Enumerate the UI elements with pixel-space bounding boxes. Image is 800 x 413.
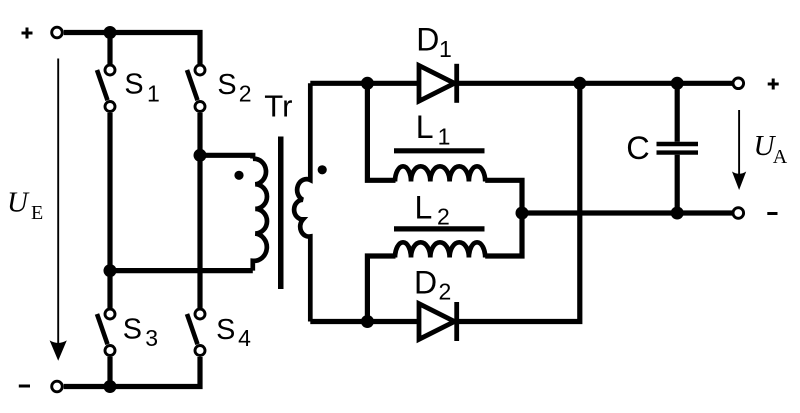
node D2 anode / L2 tap xyxy=(361,315,374,328)
diode D1 xyxy=(419,64,457,103)
svg-text:1: 1 xyxy=(147,81,160,107)
wire top-left rail xyxy=(64,33,200,65)
svg-text:L: L xyxy=(416,109,434,145)
switch S3 xyxy=(97,309,115,356)
switch S1 xyxy=(97,65,115,112)
wire primary top xyxy=(200,155,253,158)
transformer core xyxy=(278,137,284,290)
output minus label xyxy=(767,212,777,215)
label L1 xyxy=(416,109,451,149)
wire S1 drop xyxy=(107,33,112,65)
transformer primary winding xyxy=(253,159,267,271)
UA arrowhead xyxy=(732,172,746,191)
output plus terminal xyxy=(733,78,744,89)
capacitor C stem top xyxy=(675,83,680,142)
switch S2 xyxy=(187,65,205,112)
svg-text:S: S xyxy=(216,314,235,346)
inductor L2 bar xyxy=(394,226,485,231)
node capacitor bottom xyxy=(671,207,684,220)
inductor L2 winding xyxy=(395,242,485,257)
wire D2 cathode riser to top rail xyxy=(457,83,580,321)
wire secondary bottom rail to D2 xyxy=(310,319,419,324)
wire left branch S1 to mid junction xyxy=(107,113,112,271)
diode D2 xyxy=(419,302,457,341)
wire L2 right riser xyxy=(485,213,522,256)
label S4 xyxy=(216,314,251,351)
UE measure line xyxy=(57,59,59,347)
secondary polarity dot xyxy=(318,165,327,174)
wire S3 to bottom rail xyxy=(107,357,112,387)
node L1 L2 junction on minus rail xyxy=(516,207,529,220)
node D1 anode / L1 tap xyxy=(361,77,374,90)
svg-text:D: D xyxy=(414,265,437,301)
capacitor C stem bottom xyxy=(675,155,680,213)
label S3 xyxy=(123,314,158,351)
capacitor C plates xyxy=(657,144,699,153)
wire L1 tap drop xyxy=(367,83,395,180)
input plus label xyxy=(22,28,33,39)
wire primary bottom to left branch xyxy=(110,268,253,273)
inductor L1 bar xyxy=(394,148,485,153)
label UA xyxy=(754,130,788,168)
svg-text:2: 2 xyxy=(239,81,252,107)
input minus label xyxy=(19,385,30,388)
svg-text:S: S xyxy=(124,69,143,101)
node capacitor top xyxy=(671,77,684,90)
switch S4 xyxy=(187,309,205,356)
label L2 xyxy=(415,190,450,230)
wire mid junction to S3 xyxy=(107,271,112,308)
wire L2 tap drop xyxy=(367,256,395,322)
wire right branch S2 to S4 xyxy=(197,113,202,308)
input plus terminal xyxy=(52,27,63,38)
primary polarity dot xyxy=(234,171,243,180)
UE arrowhead xyxy=(50,340,67,360)
wire secondary top rail to D1 xyxy=(310,81,419,86)
node bottom junction xyxy=(104,380,117,393)
svg-text:C: C xyxy=(626,130,649,166)
node right mid junction xyxy=(194,149,207,162)
input minus terminal xyxy=(52,381,63,392)
wire D1 cathode to output plus xyxy=(457,81,733,86)
svg-text:S: S xyxy=(217,69,236,101)
svg-text:Tr: Tr xyxy=(264,88,292,123)
svg-text:1: 1 xyxy=(439,36,452,62)
svg-text:3: 3 xyxy=(145,325,158,351)
UA measure line xyxy=(738,110,740,177)
node top junction xyxy=(104,26,117,39)
node top rail D2 riser xyxy=(573,77,586,90)
node left mid junction xyxy=(104,264,117,277)
label S2 xyxy=(217,69,251,107)
wire bottom-left rail xyxy=(64,357,200,387)
svg-text:2: 2 xyxy=(439,278,452,304)
label UE xyxy=(7,187,43,225)
label D2 xyxy=(414,265,451,305)
svg-text:S: S xyxy=(123,314,142,346)
transformer secondary winding xyxy=(294,83,310,321)
inductor L1 winding xyxy=(395,166,485,181)
svg-text:U: U xyxy=(7,187,30,219)
label D1 xyxy=(416,22,451,62)
wire L1 right to minus rail xyxy=(485,180,522,213)
svg-text:1: 1 xyxy=(438,123,451,149)
wire output minus rail xyxy=(522,210,733,215)
svg-text:4: 4 xyxy=(238,325,251,351)
output minus terminal xyxy=(733,208,744,219)
svg-text:E: E xyxy=(31,202,43,224)
output plus label xyxy=(768,79,779,90)
svg-text:D: D xyxy=(416,22,439,58)
label S1 xyxy=(124,69,159,107)
svg-text:L: L xyxy=(415,190,433,226)
svg-text:A: A xyxy=(773,146,788,168)
svg-text:2: 2 xyxy=(437,203,450,229)
